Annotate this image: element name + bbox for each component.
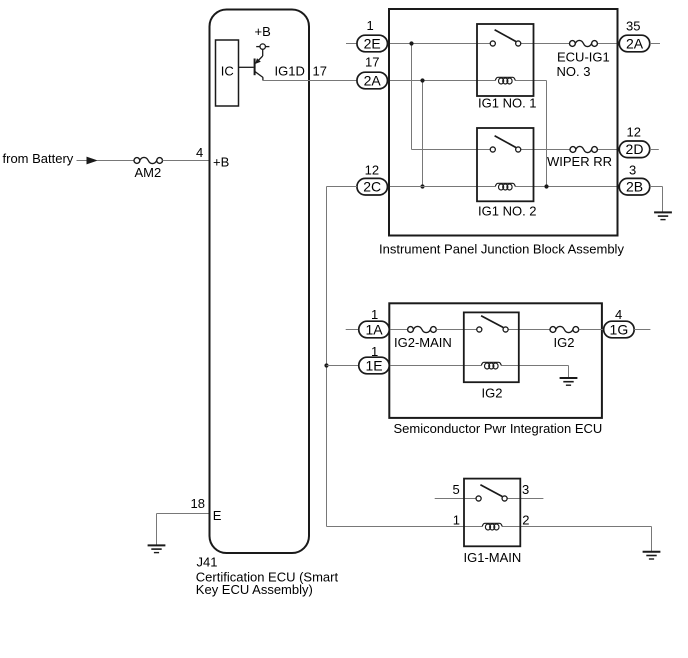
wire 1A to fuse IG2-MAIN: [389, 329, 407, 331]
svg-text:IC: IC: [221, 63, 234, 78]
wire 2A to relay IG1 NO.1 coil: [388, 80, 496, 82]
wire stub left of 1A: [346, 329, 359, 331]
node coil junction on 2B row: [544, 184, 548, 188]
svg-text:WIPER RR: WIPER RR: [547, 154, 612, 169]
svg-text:IG1D: IG1D: [275, 63, 305, 78]
svg-text:IG2: IG2: [482, 385, 503, 400]
ground (pin E): [148, 545, 166, 552]
svg-text:ECU-IG1: ECU-IG1: [557, 50, 610, 65]
svg-text:IG1-MAIN: IG1-MAIN: [464, 550, 522, 565]
relay IG2: [464, 312, 519, 382]
fuse AM2: [134, 157, 163, 163]
wire fuse WIPER RR to connector 2D: [597, 149, 619, 151]
svg-text:from Battery: from Battery: [3, 151, 74, 166]
svg-text:AM2: AM2: [135, 165, 162, 180]
svg-text:2: 2: [522, 512, 529, 527]
wire IG1 NO.2 switch to fuse WIPER RR: [521, 149, 570, 151]
svg-text:Key ECU Assembly): Key ECU Assembly): [196, 582, 313, 597]
svg-text:J41: J41: [197, 555, 218, 570]
svg-text:12: 12: [627, 124, 641, 139]
wire stub right of 2D: [650, 149, 659, 151]
svg-text:1: 1: [453, 512, 460, 527]
node on 2A wire: [420, 78, 424, 82]
relay IG1-MAIN coil: [482, 523, 502, 530]
svg-text:IG2: IG2: [554, 335, 575, 350]
battery flow arrow: [87, 157, 98, 165]
connector 2D: [619, 141, 650, 158]
ground (inside Semiconductor ECU): [560, 378, 578, 385]
node on 2E wire: [409, 41, 413, 45]
wire stub pin 5 of IG1-MAIN: [435, 498, 476, 500]
ground (IG1-MAIN coil): [643, 552, 661, 559]
svg-text:Semiconductor Pwr Integration: Semiconductor Pwr Integration ECU: [394, 421, 603, 436]
svg-text:5: 5: [453, 482, 460, 497]
svg-text:2A: 2A: [364, 72, 382, 88]
svg-text:E: E: [213, 508, 222, 523]
value label ECU-IG1 NO. 3: [557, 50, 610, 80]
svg-text:17: 17: [365, 54, 379, 69]
Instrument Panel Junction Block box: [389, 9, 618, 236]
connector 2C: [357, 178, 388, 195]
connector 1E: [359, 357, 390, 374]
ECU J41 box: [210, 10, 310, 554]
svg-text:4: 4: [615, 307, 622, 322]
wire relay IG2 switch to fuse IG2: [508, 329, 550, 331]
svg-text:35: 35: [626, 19, 640, 34]
connector 1A: [359, 321, 390, 338]
wire IG1 NO.1 coil out to 2B row: [515, 81, 546, 187]
connector 1G: [604, 321, 635, 338]
connector 2A left: [357, 72, 388, 89]
fuse WIPER RR: [570, 146, 597, 152]
wire 1E from main vertical: [327, 365, 359, 367]
svg-text:+B: +B: [213, 154, 229, 169]
svg-text:IG1 NO. 1: IG1 NO. 1: [478, 96, 537, 111]
svg-text:17: 17: [313, 63, 327, 78]
svg-text:+B: +B: [255, 24, 271, 39]
svg-text:Instrument Panel Junction Bloc: Instrument Panel Junction Block Assembly: [379, 241, 624, 256]
svg-text:4: 4: [196, 145, 203, 160]
fuse IG2-MAIN: [408, 326, 437, 332]
wire 2C to relay IG1 NO.2 coil: [388, 186, 496, 188]
fuse IG2: [550, 326, 579, 332]
fuse ECU-IG1 NO. 3: [570, 40, 598, 46]
svg-text:1A: 1A: [365, 321, 383, 337]
svg-text:IG2-MAIN: IG2-MAIN: [394, 335, 452, 350]
wire fuse AM2 to pin +B: [163, 160, 210, 162]
wire IG1 NO.2 coil to connector 2B: [515, 186, 619, 188]
wire IG1-MAIN coil to ground: [502, 527, 651, 552]
wire IG1D pin 17 to connector 2A: [263, 80, 357, 82]
wire 2B to ground: [650, 187, 663, 212]
wire fuse IG2 to 1G: [579, 329, 604, 331]
wire fuse IG2-MAIN to relay IG2 switch: [436, 329, 477, 331]
transistor Q1 (PNP, IG1D driver): [239, 49, 263, 80]
relay IG1 NO. 1: [477, 24, 534, 96]
connector 2A right: [619, 35, 650, 52]
wire 2C stub to main vertical: [327, 186, 358, 188]
+B terminal circle: [256, 44, 269, 49]
svg-text:2C: 2C: [363, 179, 381, 195]
svg-text:1G: 1G: [610, 321, 629, 337]
relay IG1-MAIN: [464, 479, 520, 547]
node on 2C wire: [420, 184, 424, 188]
svg-text:1: 1: [371, 307, 378, 322]
wire main vertical down to IG1-MAIN coil: [327, 187, 483, 527]
relay IG1 NO. 2 coil: [495, 183, 515, 190]
svg-text:1: 1: [367, 18, 374, 33]
svg-text:3: 3: [522, 482, 529, 497]
wire 2E junction down to IG1 NO.2 switch: [412, 44, 491, 150]
wire stub right of 2A: [650, 43, 660, 45]
svg-text:18: 18: [191, 496, 205, 511]
relay IG1 NO. 1 coil: [495, 77, 515, 84]
svg-text:3: 3: [629, 162, 636, 177]
node 1E tap: [324, 363, 328, 367]
connector 2E: [357, 35, 388, 52]
Semiconductor Pwr Integration ECU box: [389, 303, 602, 418]
svg-text:2A: 2A: [626, 35, 644, 51]
connector 2B: [619, 178, 650, 195]
wire fuse ECU-IG1 to connector 2A right: [597, 43, 619, 45]
wire relay IG2 coil to internal ground: [501, 366, 568, 378]
wire 2A junction down to 2C row: [422, 81, 424, 187]
IC block: [216, 40, 239, 106]
svg-text:2D: 2D: [626, 141, 644, 157]
svg-text:2E: 2E: [364, 35, 381, 51]
wire IG1 NO.1 switch to fuse ECU-IG1: [521, 43, 570, 45]
wire pin E to ground: [157, 514, 210, 545]
relay IG1 NO. 2: [477, 128, 534, 201]
svg-text:1E: 1E: [365, 357, 382, 373]
ground (2B): [654, 212, 672, 219]
svg-text:1: 1: [371, 344, 378, 359]
wire stub right of 1G: [634, 329, 650, 331]
wire from Battery (arrow tail): [77, 160, 88, 162]
svg-text:NO. 3: NO. 3: [557, 64, 591, 79]
svg-text:12: 12: [365, 163, 379, 178]
wire arrow to fuse AM2: [97, 160, 134, 162]
svg-text:IG1 NO. 2: IG1 NO. 2: [478, 203, 537, 218]
wire 1E to relay IG2 coil: [389, 365, 481, 367]
wire stub left of 2E: [346, 43, 357, 45]
relay IG2 coil: [481, 362, 501, 369]
wire 2E to relay IG1 NO.1 switch: [388, 43, 491, 45]
wire stub pin 3 of IG1-MAIN: [507, 498, 543, 500]
svg-text:2B: 2B: [626, 179, 643, 195]
